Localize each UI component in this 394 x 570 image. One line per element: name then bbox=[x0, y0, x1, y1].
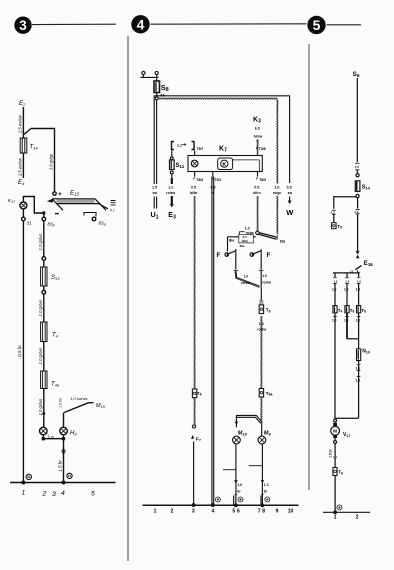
svg-text:1: 1 bbox=[334, 515, 337, 521]
svg-text:1.0 gr/ws: 1.0 gr/ws bbox=[38, 234, 43, 251]
svg-text:bl/br: bl/br bbox=[190, 191, 198, 195]
svg-text:1.0: 1.0 bbox=[332, 319, 337, 323]
svg-text:0.5: 0.5 bbox=[254, 186, 259, 190]
svg-text:17: 17 bbox=[350, 269, 354, 273]
svg-text:9: 9 bbox=[276, 509, 279, 515]
svg-text:S11: S11 bbox=[176, 163, 185, 169]
svg-text:0.1: 0.1 bbox=[110, 209, 115, 213]
svg-text:0,5 br: 0,5 br bbox=[17, 345, 22, 357]
svg-text:K7: K7 bbox=[219, 146, 227, 154]
svg-text:1.0: 1.0 bbox=[345, 280, 349, 284]
svg-text:31: 31 bbox=[27, 475, 31, 479]
svg-text:ro/ge: ro/ge bbox=[273, 191, 281, 195]
svg-text:T8/5: T8/5 bbox=[259, 178, 266, 182]
svg-text:ro/sw: ro/sw bbox=[166, 191, 175, 195]
svg-text:br: br bbox=[237, 490, 241, 494]
svg-text:8: 8 bbox=[262, 509, 265, 515]
svg-text:1.0: 1.0 bbox=[237, 483, 242, 487]
svg-text:1.0: 1.0 bbox=[333, 280, 337, 284]
svg-text:4: 4 bbox=[61, 490, 65, 497]
svg-text:bl/ro: bl/ro bbox=[253, 191, 260, 195]
svg-text:2: 2 bbox=[42, 491, 47, 498]
svg-text:83a: 83a bbox=[99, 221, 106, 227]
svg-text:1.5 br: 1.5 br bbox=[58, 460, 63, 472]
svg-text:1.0: 1.0 bbox=[264, 483, 269, 487]
svg-text:T8/6: T8/6 bbox=[196, 178, 203, 182]
svg-text:1.0: 1.0 bbox=[259, 322, 264, 326]
svg-text:W: W bbox=[286, 208, 294, 217]
svg-text:U1: U1 bbox=[151, 210, 159, 220]
svg-text:S14: S14 bbox=[362, 185, 371, 191]
svg-text:1.0: 1.0 bbox=[332, 288, 337, 292]
svg-text:31: 31 bbox=[68, 474, 72, 478]
svg-text:10: 10 bbox=[288, 509, 294, 515]
svg-text:T14: T14 bbox=[30, 145, 39, 151]
svg-text:sw: sw bbox=[288, 191, 293, 195]
svg-text:E4: E4 bbox=[18, 179, 25, 186]
svg-text:sw: sw bbox=[153, 191, 158, 195]
svg-text:T6: T6 bbox=[361, 308, 366, 314]
svg-text:E13: E13 bbox=[70, 191, 80, 197]
svg-text:1.0: 1.0 bbox=[344, 319, 349, 323]
svg-text:K: K bbox=[222, 162, 226, 168]
svg-text:1.5: 1.5 bbox=[356, 379, 361, 383]
svg-text:N10: N10 bbox=[362, 349, 370, 355]
svg-text:1.2: 1.2 bbox=[168, 186, 173, 190]
svg-text:3: 3 bbox=[52, 491, 56, 498]
svg-text:K3: K3 bbox=[253, 117, 261, 125]
svg-text:0.5: 0.5 bbox=[211, 186, 216, 190]
svg-text:M10: M10 bbox=[238, 431, 248, 437]
svg-text:2.5 ws/sw: 2.5 ws/sw bbox=[18, 114, 23, 134]
svg-text:2: 2 bbox=[171, 509, 174, 515]
svg-text:0.5: 0.5 bbox=[287, 186, 292, 190]
svg-text:1.1: 1.1 bbox=[177, 144, 182, 148]
svg-text:S13: S13 bbox=[51, 275, 60, 281]
svg-text:4: 4 bbox=[137, 16, 145, 32]
svg-text:T8/1: T8/1 bbox=[215, 178, 222, 182]
svg-text:0.5: 0.5 bbox=[191, 186, 196, 190]
svg-text:1.0 gr/ws: 1.0 gr/ws bbox=[38, 348, 43, 365]
svg-text:T6: T6 bbox=[337, 224, 342, 230]
svg-text:1.0: 1.0 bbox=[356, 288, 361, 292]
svg-text:bl/sw: bl/sw bbox=[254, 135, 263, 139]
svg-text:83b: 83b bbox=[48, 222, 55, 228]
svg-text:1.0: 1.0 bbox=[244, 275, 249, 279]
svg-text:1.5: 1.5 bbox=[355, 165, 360, 169]
svg-text:1.0 sw/ws: 1.0 sw/ws bbox=[70, 396, 88, 401]
svg-text:E3: E3 bbox=[168, 210, 176, 220]
svg-text:1.0: 1.0 bbox=[245, 227, 250, 231]
svg-text:8A: 8A bbox=[161, 94, 166, 98]
svg-text:2: 2 bbox=[356, 515, 359, 521]
svg-text:T4: T4 bbox=[338, 308, 343, 314]
svg-text:br: br bbox=[264, 490, 268, 494]
svg-text:83a: 83a bbox=[280, 239, 286, 243]
svg-text:1.0 sw: 1.0 sw bbox=[59, 398, 63, 408]
svg-text:1.0 gr/ws: 1.0 gr/ws bbox=[38, 300, 43, 317]
svg-text:5: 5 bbox=[313, 17, 321, 33]
svg-text:w: w bbox=[211, 191, 215, 195]
svg-text:1.0: 1.0 bbox=[356, 319, 361, 323]
svg-text:S8: S8 bbox=[161, 83, 169, 93]
svg-text:6: 6 bbox=[237, 509, 240, 515]
svg-text:3: 3 bbox=[19, 18, 27, 33]
svg-text:H8: H8 bbox=[70, 431, 77, 437]
svg-text:7: 7 bbox=[258, 509, 261, 515]
svg-text:Bla: Bla bbox=[229, 239, 234, 243]
svg-text:1.0 gr/ge: 1.0 gr/ge bbox=[49, 153, 54, 170]
svg-text:F7: F7 bbox=[196, 437, 201, 443]
svg-text:31: 31 bbox=[27, 221, 33, 226]
svg-text:1.0: 1.0 bbox=[344, 288, 349, 292]
svg-text:T4: T4 bbox=[52, 333, 59, 339]
svg-text:1: 1 bbox=[22, 490, 26, 497]
svg-text:S6: S6 bbox=[353, 71, 360, 79]
svg-text:1.0: 1.0 bbox=[262, 274, 267, 278]
svg-text:L10: L10 bbox=[48, 434, 54, 440]
svg-text:1.5 br: 1.5 br bbox=[329, 448, 333, 457]
svg-text:1.5: 1.5 bbox=[152, 186, 157, 190]
svg-text:1.5: 1.5 bbox=[331, 211, 336, 215]
svg-text:T6: T6 bbox=[197, 391, 202, 397]
svg-text:1.0: 1.0 bbox=[357, 280, 361, 284]
svg-text:1.0: 1.0 bbox=[356, 367, 361, 371]
svg-text:V17: V17 bbox=[343, 432, 350, 438]
svg-text:F: F bbox=[267, 252, 271, 259]
svg-text:3: 3 bbox=[192, 509, 195, 515]
svg-text:4: 4 bbox=[212, 509, 215, 515]
svg-text:ro/sw: ro/sw bbox=[257, 328, 266, 332]
svg-text:1.0 gr/ws: 1.0 gr/ws bbox=[38, 399, 43, 416]
svg-text:6.3: 6.3 bbox=[255, 127, 260, 131]
svg-text:2.5 ws/sw: 2.5 ws/sw bbox=[18, 157, 23, 177]
svg-text:E2: E2 bbox=[19, 100, 26, 107]
svg-text:T4a: T4a bbox=[51, 382, 60, 388]
svg-text:+: + bbox=[58, 191, 62, 198]
svg-text:bl/br: bl/br bbox=[242, 239, 249, 243]
svg-text:T6: T6 bbox=[266, 308, 271, 314]
svg-text:1: 1 bbox=[154, 509, 157, 515]
svg-text:K17: K17 bbox=[8, 198, 16, 204]
svg-text:1.5: 1.5 bbox=[354, 210, 359, 214]
svg-text:M9: M9 bbox=[264, 431, 272, 437]
svg-text:E16: E16 bbox=[364, 261, 373, 267]
svg-text:T6: T6 bbox=[350, 308, 355, 314]
svg-text:T6: T6 bbox=[338, 470, 343, 476]
svg-text:1.0: 1.0 bbox=[274, 186, 279, 190]
svg-text:5: 5 bbox=[232, 509, 235, 515]
svg-text:ro/ge: ro/ge bbox=[246, 231, 254, 235]
svg-text:ro/sw: ro/sw bbox=[241, 281, 250, 285]
svg-text:M: M bbox=[333, 429, 337, 434]
svg-text:5: 5 bbox=[91, 491, 95, 498]
svg-text:ro/sw: ro/sw bbox=[262, 281, 271, 285]
svg-text:T6a: T6a bbox=[266, 391, 273, 397]
svg-text:83a: 83a bbox=[240, 244, 245, 248]
svg-text:T8/7: T8/7 bbox=[197, 147, 204, 151]
svg-text:M10: M10 bbox=[96, 403, 106, 409]
svg-text:F: F bbox=[217, 252, 221, 259]
svg-text:T8/8: T8/8 bbox=[259, 147, 266, 151]
